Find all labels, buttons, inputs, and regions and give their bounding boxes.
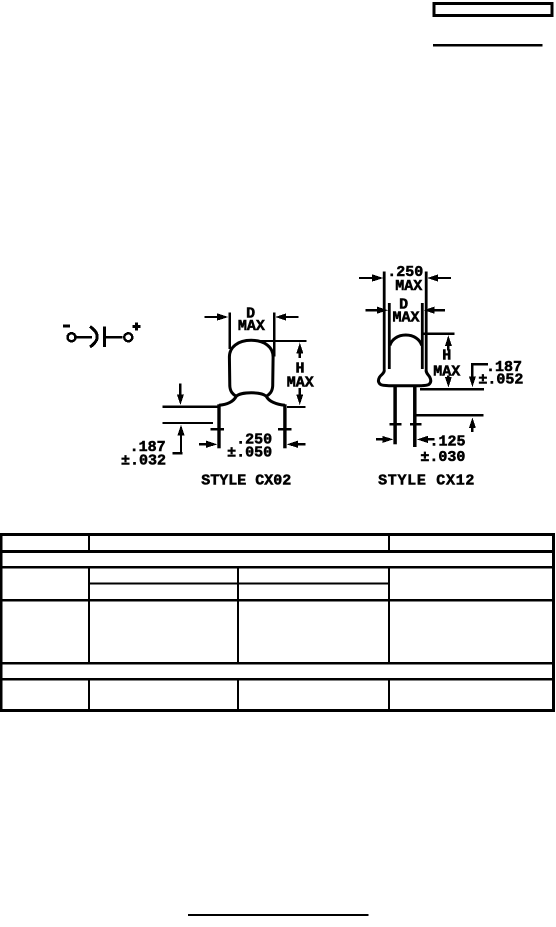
table line 5	[0, 662, 555, 665]
svg-text:±.030: ±.030	[420, 449, 465, 466]
H top reference line	[421, 333, 455, 335]
leader bracket vertical and down arrow	[471, 363, 473, 378]
svg-text:±.032: ±.032	[121, 452, 166, 469]
right arrow	[287, 441, 298, 448]
CX12 left lead	[393, 386, 397, 445]
right lead tick	[410, 423, 422, 426]
table vertical divider 3 segments	[388, 536, 390, 710]
table line 3	[0, 566, 555, 568]
table line 6	[0, 678, 555, 681]
left terminal circle	[68, 333, 76, 341]
D left extension line	[228, 312, 231, 349]
D dim line left segment with arrow	[204, 316, 218, 318]
CX02 body bottom saddle	[236, 393, 266, 397]
wire left terminal to curved plate	[77, 336, 93, 339]
minus polarity mark	[63, 324, 70, 327]
H upper arrow	[296, 343, 303, 354]
svg-text:H: H	[442, 348, 451, 365]
wire straight plate to right terminal	[106, 336, 123, 339]
CX12 outer sleeve right line	[425, 272, 428, 372]
CX02 H MAX dimension	[255, 340, 314, 408]
upper arrow	[445, 335, 452, 346]
table right border	[552, 533, 555, 712]
table left border	[0, 533, 3, 712]
STYLE CX12 outline drawing	[378, 272, 430, 448]
CX02 right lead	[283, 404, 286, 448]
CX12 body dome	[390, 335, 422, 346]
down arrow	[179, 384, 181, 396]
table vertical divider 2 segments	[237, 567, 239, 710]
CX12 H MAX dimension	[420, 333, 484, 391]
left lead tick	[210, 428, 224, 431]
svg-text:MAX: MAX	[238, 318, 265, 335]
D right extension line	[273, 312, 276, 356]
lower arrow	[447, 376, 449, 381]
svg-text:MAX: MAX	[395, 278, 422, 295]
CX02 .250 lead spacing dimension	[199, 428, 306, 462]
up arrow with foot	[178, 425, 185, 436]
H top reference line	[255, 340, 307, 342]
H bottom reference line (right of leads)	[287, 406, 306, 408]
label STYLE CX12	[378, 473, 475, 490]
header underline	[433, 44, 543, 46]
CX02 right flare to lead	[266, 396, 285, 405]
CX02 left flare to lead	[219, 396, 236, 405]
CX02 body outline	[229, 340, 273, 396]
table top border	[0, 533, 555, 536]
table vertical divider 1 segments	[88, 536, 90, 710]
right terminal circle	[124, 333, 132, 341]
table bottom border	[0, 709, 555, 712]
table line 4	[0, 599, 555, 602]
svg-text:MAX: MAX	[433, 363, 460, 380]
svg-text:.125: .125	[429, 434, 465, 451]
CX12 D MAX body dimension	[366, 297, 446, 327]
table sub-header middle line	[89, 582, 389, 584]
straight plate (positive)	[103, 326, 106, 347]
svg-text:±.050: ±.050	[227, 444, 272, 461]
footer page-number underline	[188, 914, 369, 916]
svg-text:MAX: MAX	[392, 310, 419, 327]
lower reference line	[162, 422, 213, 424]
left lead tick	[389, 423, 401, 426]
lower reference line	[417, 414, 484, 416]
plus polarity mark	[132, 322, 140, 330]
right lead tick	[278, 428, 292, 431]
CX12 inner body left line	[388, 303, 391, 369]
H bottom reference line (bell bottom plane)	[420, 388, 484, 390]
CX12 .187 dimension	[417, 359, 524, 432]
CX02 left lead	[217, 404, 220, 448]
svg-text:±.052: ±.052	[478, 372, 523, 389]
STYLE CX02 outline drawing	[219, 340, 285, 448]
D dim line right segment with arrow	[275, 313, 286, 320]
H lower arrow	[299, 388, 301, 396]
table line 2	[0, 550, 555, 553]
leader bracket horizontal	[472, 363, 488, 365]
right arrow	[417, 436, 428, 443]
svg-text:STYLE CX02: STYLE CX02	[201, 473, 291, 490]
upper reference line	[162, 405, 218, 407]
left arrow	[199, 443, 208, 445]
header box (empty title block)	[434, 4, 552, 16]
curved plate (negative)	[90, 327, 97, 348]
CX12 right lead	[413, 386, 417, 448]
CX02 D MAX dimension	[204, 306, 298, 357]
CX12 inner body right line	[421, 303, 424, 369]
CX02 .187 standoff dimension	[121, 384, 219, 470]
CX12 .250 MAX sleeve dimension	[359, 264, 451, 295]
left arrow	[376, 438, 384, 440]
CX12 .125 lead spacing dimension	[376, 423, 466, 466]
svg-text:MAX: MAX	[287, 374, 314, 391]
svg-text:STYLE CX12: STYLE CX12	[378, 473, 475, 490]
CX12 outer sleeve left line	[383, 272, 386, 372]
label STYLE CX02	[201, 473, 291, 490]
up arrow	[469, 418, 476, 429]
CX12 bell base	[378, 371, 430, 386]
